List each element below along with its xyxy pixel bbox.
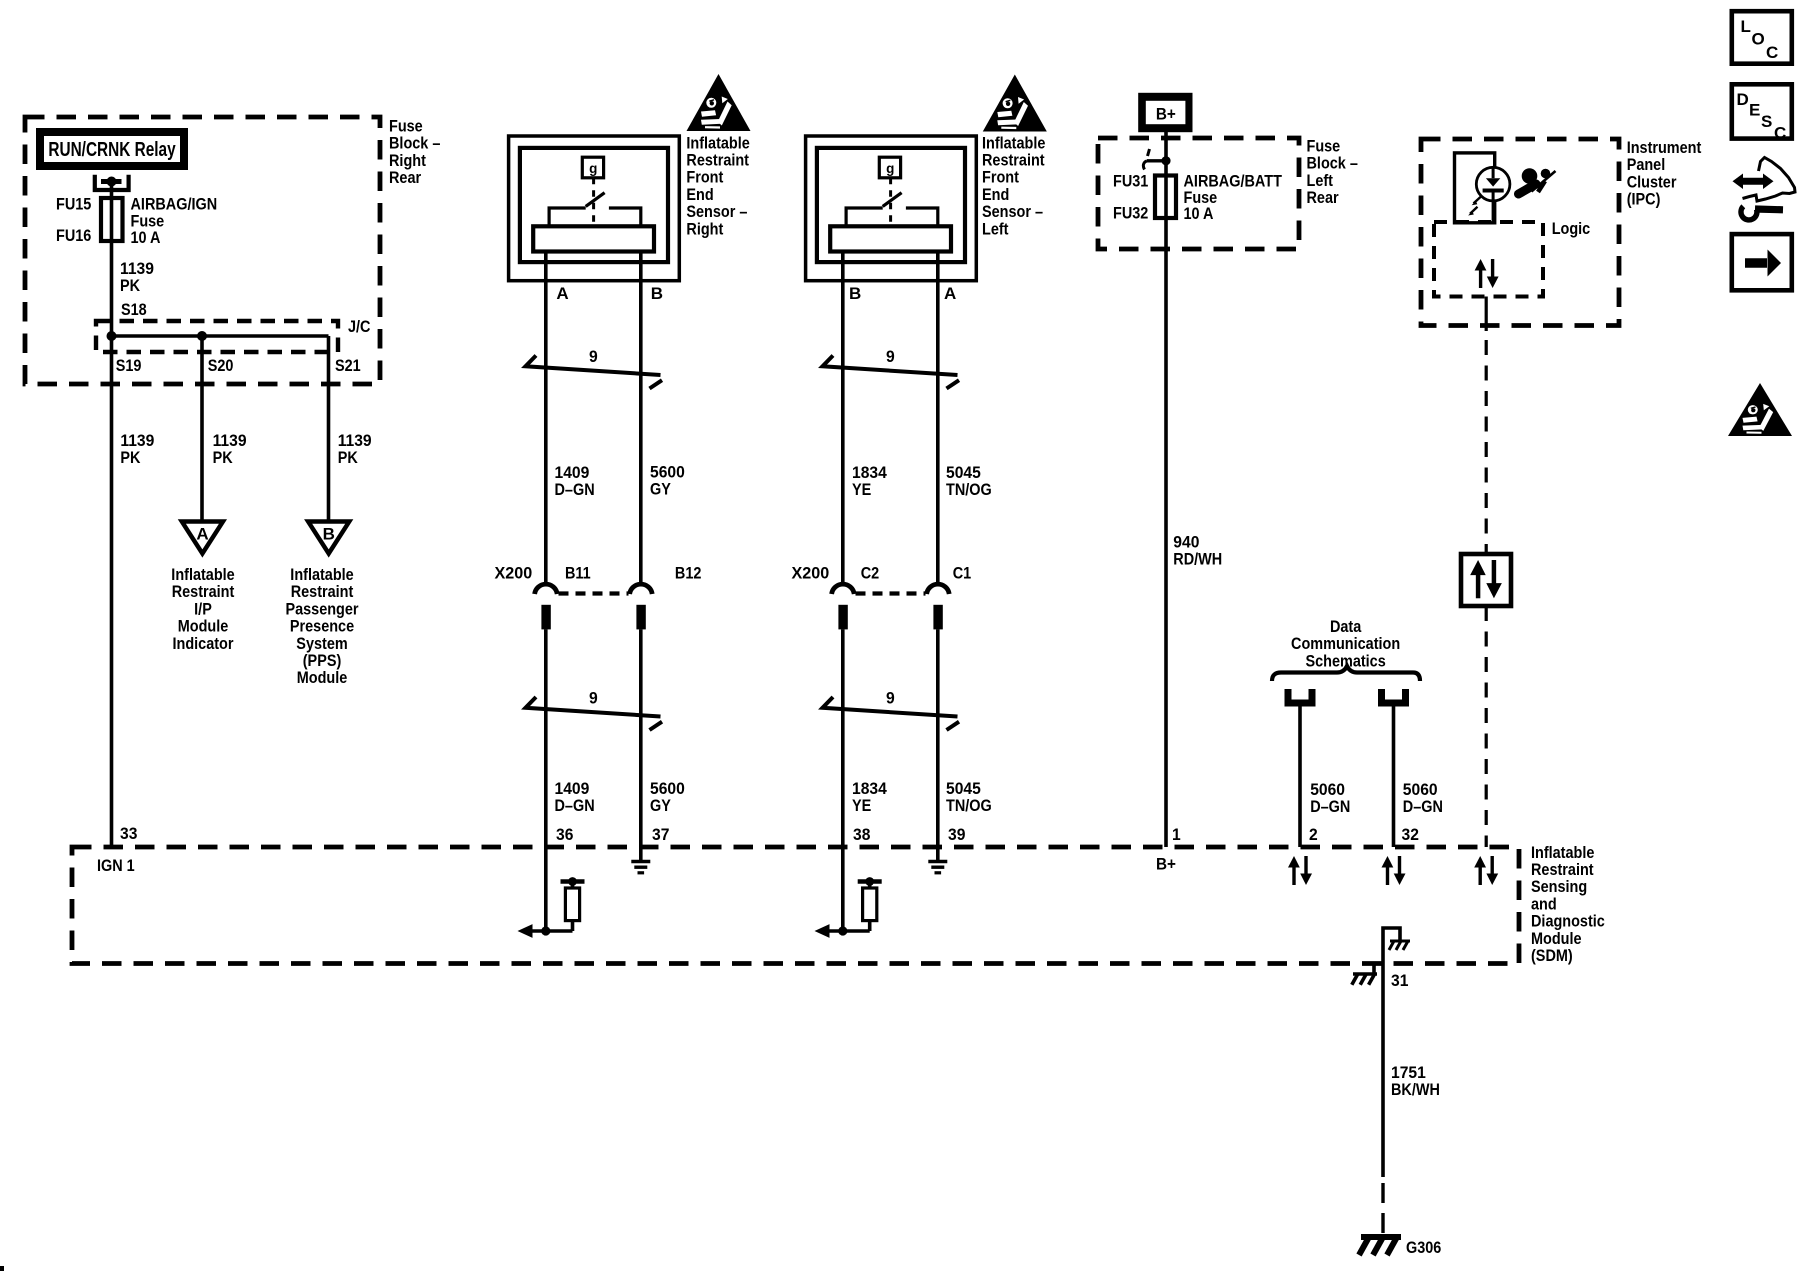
- svg-text:9: 9: [886, 689, 895, 708]
- svg-text:Block –: Block –: [1307, 155, 1359, 173]
- wire label 1751 BK/WH: [1391, 1063, 1440, 1099]
- wire label 1409 D-GN (lower): [555, 779, 595, 815]
- svg-text:Inflatable: Inflatable: [290, 566, 354, 584]
- svg-text:(IPC): (IPC): [1627, 191, 1661, 209]
- fuse FU15/FU16 AIRBAG/IGN 10A: [101, 198, 123, 241]
- junction node S19: [107, 331, 117, 341]
- svg-text:Restraint: Restraint: [172, 583, 235, 601]
- svg-text:B: B: [323, 525, 335, 544]
- wire label 1139 PK (right): [338, 431, 372, 467]
- serial data stub below logic: [1485, 297, 1488, 332]
- svg-text:Fuse: Fuse: [389, 117, 423, 135]
- svg-text:FU15: FU15: [56, 195, 92, 213]
- wire S20 branch to I/P module indicator: [200, 336, 204, 520]
- fuse block - right rear (dashed enclosure): [25, 117, 380, 384]
- sensor left: resistive element bar: [830, 226, 951, 251]
- warning triangle (front end sensor left): [983, 75, 1047, 132]
- twisted pair marker (sensor right upper): [526, 356, 663, 389]
- sensor right internal pin wires: [546, 252, 641, 281]
- airbag pictogram in IPC: [1519, 168, 1556, 194]
- svg-text:Right: Right: [389, 152, 427, 170]
- bidirectional arrows at pin 2: [1288, 856, 1312, 885]
- svg-text:31: 31: [1391, 971, 1408, 990]
- wire 5060 D-GN to SDM pin 2: [1298, 707, 1302, 848]
- svg-text:Instrument: Instrument: [1627, 139, 1702, 157]
- svg-text:YE: YE: [852, 481, 871, 499]
- svg-text:Front: Front: [686, 169, 724, 187]
- svg-text:PK: PK: [338, 449, 359, 467]
- diagnostic arrows and wrench icon: [1733, 158, 1796, 220]
- connector X200 dashed tie (left sensor): [856, 591, 926, 595]
- svg-text:39: 39: [948, 825, 965, 844]
- svg-text:5045: 5045: [946, 779, 981, 798]
- svg-text:PK: PK: [120, 449, 141, 467]
- svg-text:37: 37: [652, 825, 669, 844]
- svg-text:C2: C2: [861, 564, 880, 582]
- sensor left: switch contacts: [846, 208, 883, 226]
- svg-text:C1: C1: [953, 564, 972, 582]
- svg-text:Inflatable: Inflatable: [171, 566, 235, 584]
- relay RUN/CRNK title box: [36, 128, 188, 170]
- brace over data communication drops: [1272, 666, 1420, 681]
- svg-text:(PPS): (PPS): [303, 652, 342, 670]
- svg-text:TN/OG: TN/OG: [946, 481, 992, 499]
- twisted pair marker (sensor right lower): [526, 697, 663, 730]
- wire sensor left pin B (1834 YE) upper: [841, 281, 845, 583]
- off-page connector triangle A: [182, 522, 223, 554]
- svg-text:YE: YE: [852, 797, 871, 815]
- svg-text:D–GN: D–GN: [555, 797, 595, 815]
- svg-text:g: g: [886, 161, 894, 176]
- svg-text:S18: S18: [121, 301, 147, 319]
- svg-text:I/P: I/P: [194, 600, 212, 618]
- svg-text:Passenger: Passenger: [285, 600, 358, 618]
- svg-text:Block –: Block –: [389, 135, 441, 153]
- svg-text:Restraint: Restraint: [1531, 861, 1594, 879]
- label: Inflatable Restraint I/P Module Indicator: [171, 566, 235, 653]
- svg-text:Module: Module: [297, 669, 348, 687]
- svg-text:BK/WH: BK/WH: [1391, 1081, 1440, 1099]
- svg-text:X200: X200: [495, 563, 533, 582]
- svg-text:9: 9: [589, 689, 598, 708]
- bidirectional arrows at serial data input: [1474, 856, 1498, 885]
- wire label 1139 PK: [120, 259, 154, 295]
- wire label 1139 PK (left): [120, 431, 154, 467]
- svg-text:Module: Module: [178, 618, 229, 636]
- fuse FU31/FU32 AIRBAG/BATT 10A: [1155, 176, 1176, 219]
- warning triangle (page level): [1728, 383, 1792, 436]
- svg-text:PK: PK: [120, 277, 141, 295]
- svg-text:36: 36: [556, 825, 573, 844]
- svg-text:1409: 1409: [555, 779, 590, 798]
- wire label 5060 D-GN (pin 2): [1310, 780, 1350, 816]
- sensor right: resistive element bar: [533, 226, 654, 251]
- svg-text:D–GN: D–GN: [1310, 798, 1350, 816]
- wire S21 branch to PPS module: [327, 336, 331, 520]
- svg-text:Restraint: Restraint: [686, 151, 749, 169]
- svg-text:Diagnostic: Diagnostic: [1531, 913, 1605, 931]
- svg-text:Restraint: Restraint: [982, 151, 1045, 169]
- svg-text:10 A: 10 A: [1184, 205, 1214, 223]
- svg-text:Inflatable: Inflatable: [982, 134, 1046, 152]
- fuse block - left rear (dashed enclosure): [1098, 138, 1299, 249]
- label: Data Communication Schematics: [1291, 618, 1400, 671]
- label: Inflatable Restraint Front End Sensor - Left: [982, 134, 1046, 238]
- svg-text:1751: 1751: [1391, 1063, 1426, 1082]
- svg-text:g: g: [589, 161, 597, 176]
- svg-text:Presence: Presence: [290, 618, 354, 636]
- svg-text:1139: 1139: [213, 431, 247, 450]
- wire label 1409 D-GN (upper): [555, 463, 595, 499]
- svg-text:(SDM): (SDM): [1531, 947, 1573, 965]
- svg-text:S: S: [1761, 112, 1772, 131]
- wire 1409 lower to SDM pin 36: [544, 629, 548, 847]
- earth ground at pin 39: [928, 847, 947, 873]
- svg-text:1139: 1139: [120, 259, 154, 278]
- label AIRBAG/IGN Fuse 10 A: [131, 195, 218, 247]
- off-page link (data line 2): [1382, 689, 1406, 703]
- wire sensor right pin B (5600 GY) upper: [639, 281, 643, 583]
- svg-text:J/C: J/C: [348, 318, 370, 336]
- svg-text:32: 32: [1402, 825, 1419, 844]
- svg-text:B11: B11: [565, 564, 591, 582]
- connector X200 dashed tie: [559, 591, 629, 595]
- bus wire inside J/C: [112, 334, 329, 338]
- svg-text:5600: 5600: [650, 463, 685, 482]
- svg-text:Sensor –: Sensor –: [982, 203, 1043, 221]
- chassis ground stub below SDM: [1352, 963, 1377, 985]
- label: Inflatable Restraint Front End Sensor - Right: [686, 134, 750, 238]
- off-page connector triangle B: [308, 522, 349, 554]
- svg-text:B: B: [849, 284, 861, 303]
- svg-text:B+: B+: [1156, 105, 1176, 124]
- wire B+ to SDM pin 1 (940 RD/WH): [1164, 132, 1168, 847]
- svg-text:1409: 1409: [555, 463, 590, 482]
- wire from relay through fuse to SDM pin 33: [110, 182, 114, 848]
- svg-text:5045: 5045: [946, 463, 981, 482]
- svg-text:Fuse: Fuse: [1307, 137, 1341, 155]
- instrument panel cluster IPC (dashed enclosure): [1421, 139, 1619, 326]
- svg-text:Module: Module: [1531, 930, 1582, 948]
- svg-text:FU32: FU32: [1113, 204, 1149, 222]
- svg-text:C: C: [1774, 124, 1786, 143]
- earth ground at pin 37: [631, 847, 650, 873]
- svg-text:IGN 1: IGN 1: [97, 857, 135, 875]
- label: Inflatable Restraint Passenger Presence System (PPS) Module: [285, 566, 358, 688]
- svg-text:G306: G306: [1406, 1239, 1442, 1257]
- svg-text:Restraint: Restraint: [291, 583, 354, 601]
- sensor left internal pin wires: [843, 252, 938, 281]
- junction block J/C (dashed): [96, 321, 338, 352]
- wire label 5060 D-GN (pin 32): [1403, 780, 1443, 816]
- battery feed B+ box: [1138, 93, 1192, 132]
- svg-text:940: 940: [1173, 533, 1199, 552]
- sensor right: switch blade: [586, 193, 605, 207]
- wire label 5600 GY (upper): [650, 463, 685, 499]
- wire 1834 lower to SDM pin 38: [841, 629, 845, 847]
- svg-text:AIRBAG/IGN: AIRBAG/IGN: [131, 195, 218, 213]
- chassis ground G306: [1359, 1237, 1442, 1257]
- svg-text:Left: Left: [1307, 172, 1334, 190]
- svg-text:AIRBAG/BATT: AIRBAG/BATT: [1184, 172, 1283, 190]
- sensor left: g-cell: [879, 157, 900, 178]
- svg-text:9: 9: [886, 347, 895, 366]
- svg-text:A: A: [196, 525, 208, 544]
- svg-text:Sensor –: Sensor –: [686, 203, 747, 221]
- svg-text:Logic: Logic: [1552, 220, 1591, 238]
- svg-text:GY: GY: [650, 797, 671, 815]
- LOC navigation box: [1732, 11, 1792, 64]
- svg-text:2: 2: [1309, 825, 1318, 844]
- sense resistor network at pin 38: [815, 847, 882, 938]
- connector X200 terminal C1: [927, 584, 950, 629]
- svg-text:5060: 5060: [1310, 780, 1345, 799]
- logic block (dashed): [1434, 222, 1543, 297]
- off-page link (data line 1): [1288, 689, 1312, 703]
- svg-text:TN/OG: TN/OG: [946, 797, 992, 815]
- svg-text:Rear: Rear: [389, 169, 421, 187]
- svg-text:S20: S20: [208, 357, 234, 375]
- svg-text:9: 9: [589, 347, 598, 366]
- svg-text:B: B: [651, 284, 663, 303]
- svg-text:End: End: [686, 186, 713, 204]
- svg-text:5600: 5600: [650, 779, 685, 798]
- svg-text:B12: B12: [675, 564, 702, 582]
- svg-text:A: A: [556, 284, 568, 303]
- internal ground branch at pin 31: [1383, 928, 1410, 963]
- svg-text:5060: 5060: [1403, 780, 1438, 799]
- svg-text:Panel: Panel: [1627, 156, 1666, 174]
- wire sensor left pin A (5045 TN/OG) upper: [936, 281, 940, 583]
- wire label 1834 YE (upper): [852, 463, 887, 499]
- dashed serial data wire to SDM: [1485, 606, 1488, 847]
- svg-text:38: 38: [853, 825, 870, 844]
- connector X200 terminal B11: [535, 584, 558, 629]
- svg-text:1: 1: [1172, 825, 1181, 844]
- svg-text:and: and: [1531, 895, 1557, 913]
- twisted pair marker (sensor left upper): [823, 356, 960, 389]
- svg-text:D–GN: D–GN: [1403, 798, 1443, 816]
- wire 1751 BK/WH from pin 31: [1381, 963, 1385, 1177]
- bidirectional data arrows in logic block: [1475, 259, 1499, 288]
- sensor right: switch contacts: [549, 208, 586, 226]
- svg-text:Rear: Rear: [1307, 189, 1339, 207]
- connector X200 terminal B12: [630, 584, 653, 629]
- fusible element hook at FU31: [1143, 149, 1170, 170]
- svg-text:E: E: [1749, 101, 1760, 120]
- svg-text:D–GN: D–GN: [555, 481, 595, 499]
- svg-text:O: O: [1752, 30, 1765, 49]
- label: Fuse Block - Left Rear: [1307, 137, 1359, 207]
- bidirectional arrows at pin 32: [1382, 856, 1406, 885]
- airbag indicator lamp (LED in rectangle): [1455, 153, 1510, 223]
- forward navigation arrow box: [1732, 234, 1792, 290]
- bidirectional link box on serial data wire: [1461, 554, 1511, 606]
- svg-text:Indicator: Indicator: [173, 635, 234, 653]
- svg-text:L: L: [1741, 17, 1751, 36]
- wire label 5600 GY (lower): [650, 779, 685, 815]
- label: Fuse Block - Right Rear: [389, 117, 441, 187]
- svg-text:S19: S19: [116, 357, 142, 375]
- svg-text:10 A: 10 A: [131, 229, 161, 247]
- svg-text:B+: B+: [1156, 855, 1176, 874]
- label AIRBAG/BATT Fuse 10 A: [1184, 172, 1283, 223]
- svg-text:C: C: [1766, 43, 1778, 62]
- svg-text:Right: Right: [686, 220, 724, 238]
- wire label 1834 YE (lower): [852, 779, 887, 815]
- svg-text:End: End: [982, 186, 1009, 204]
- sensor left: actuating dashed link: [889, 178, 892, 227]
- svg-text:A: A: [944, 284, 956, 303]
- svg-text:Communication: Communication: [1291, 635, 1400, 653]
- wire 5060 D-GN to SDM pin 32: [1392, 707, 1396, 848]
- wire label 5045 TN/OG (upper): [946, 463, 992, 499]
- svg-text:S21: S21: [335, 357, 361, 375]
- svg-text:33: 33: [120, 824, 137, 843]
- svg-text:X200: X200: [792, 563, 830, 582]
- svg-text:Data: Data: [1330, 618, 1362, 636]
- SDM inflatable restraint sensing and diagnostic module (dashed enclosure): [72, 847, 1519, 964]
- svg-text:RUN/CRNK Relay: RUN/CRNK Relay: [48, 138, 175, 161]
- svg-text:1139: 1139: [338, 431, 372, 450]
- sensor left: switch blade: [883, 193, 902, 207]
- sensor right: g-cell: [582, 157, 603, 178]
- svg-text:Inflatable: Inflatable: [686, 134, 750, 152]
- svg-text:1139: 1139: [120, 431, 154, 450]
- wire 5600 lower to SDM pin 37: [639, 629, 643, 847]
- inflatable restraint front end sensor - right (box): [509, 136, 680, 281]
- sense resistor network at pin 36: [518, 847, 585, 938]
- page corner mark: [0, 1266, 4, 1271]
- junction node S20: [197, 331, 207, 341]
- svg-text:FU16: FU16: [56, 227, 92, 245]
- wire label 5045 TN/OG (lower): [946, 779, 992, 815]
- wire label 1139 PK (middle): [213, 431, 247, 467]
- wire label 940 RD/WH: [1173, 533, 1222, 569]
- DESC navigation box: [1732, 84, 1792, 142]
- svg-text:Cluster: Cluster: [1627, 173, 1677, 191]
- svg-text:Inflatable: Inflatable: [1531, 844, 1595, 862]
- svg-text:PK: PK: [213, 449, 234, 467]
- sensor right: actuating dashed link: [592, 178, 595, 227]
- svg-text:Left: Left: [982, 220, 1009, 238]
- label: Instrument Panel Cluster (IPC): [1627, 139, 1702, 209]
- wire sensor right pin A (1409 D-GN) upper: [544, 281, 548, 583]
- svg-text:1834: 1834: [852, 463, 887, 482]
- connector X200 terminal C2: [832, 584, 855, 629]
- wire 5045 lower to SDM pin 39: [936, 629, 940, 847]
- dashed tail of ground wire: [1381, 1183, 1384, 1243]
- svg-text:D: D: [1737, 90, 1749, 109]
- svg-text:1834: 1834: [852, 779, 887, 798]
- svg-text:Sensing: Sensing: [1531, 878, 1587, 896]
- relay contact symbol: [95, 175, 129, 190]
- warning triangle (front end sensor right): [687, 74, 751, 131]
- svg-text:GY: GY: [650, 481, 671, 499]
- twisted pair marker (sensor left lower): [823, 697, 960, 730]
- svg-text:System: System: [296, 635, 347, 653]
- dashed serial data wire from IPC: [1485, 340, 1488, 554]
- inflatable restraint front end sensor - left (box): [806, 136, 977, 281]
- svg-text:Front: Front: [982, 169, 1020, 187]
- svg-text:FU31: FU31: [1113, 172, 1149, 190]
- svg-text:RD/WH: RD/WH: [1173, 551, 1222, 569]
- label: Inflatable Restraint Sensing and Diagnostic Module (SDM): [1531, 844, 1605, 966]
